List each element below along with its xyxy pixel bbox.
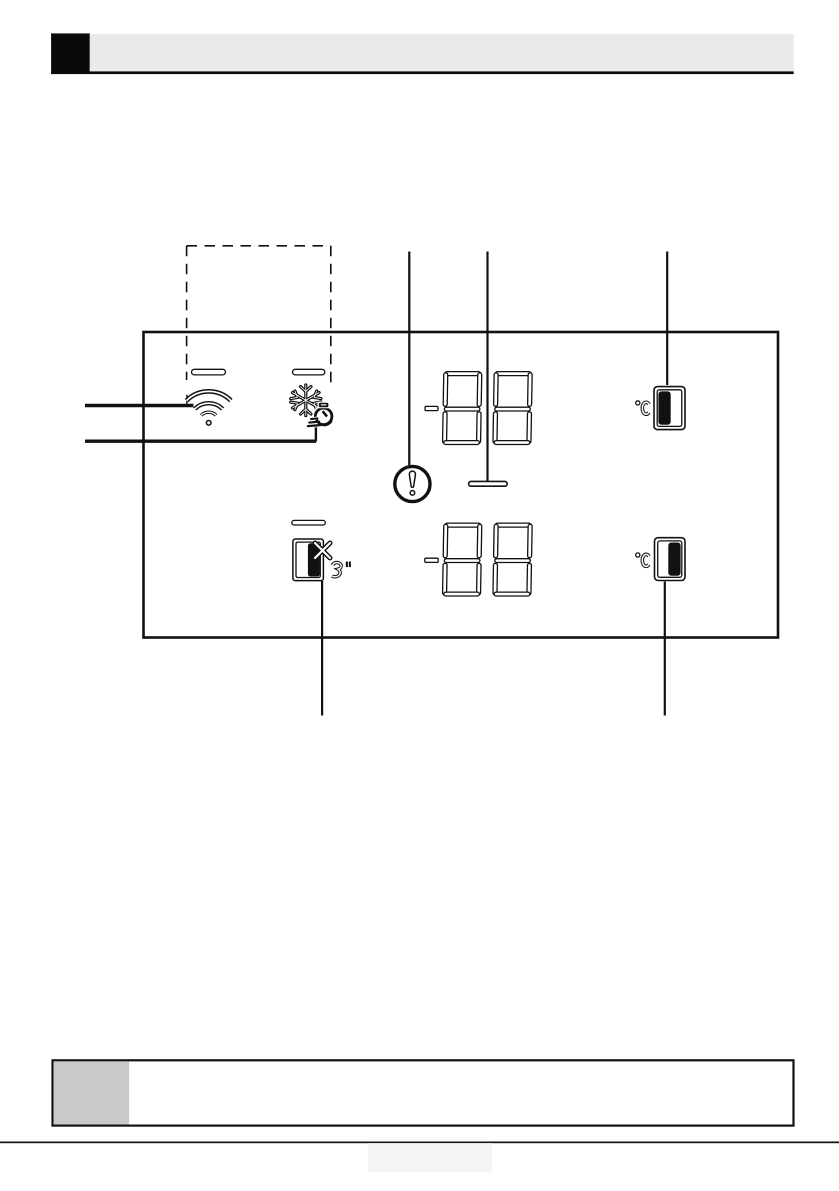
- lower display digit 2: [493, 523, 532, 596]
- callout line to quick-freeze indicator: [85, 440, 316, 443]
- selector bar above wifi: [192, 369, 226, 375]
- ice-off indicator: [293, 539, 351, 581]
- callout line from freezer temperature unit: [664, 582, 666, 716]
- dashed highlight box top edge: [187, 245, 331, 247]
- control panel border: [144, 332, 779, 638]
- minus sign upper display: [425, 406, 438, 410]
- quick freeze icon: snowflake: [291, 385, 321, 416]
- fridge temperature unit label: [636, 387, 685, 430]
- stopwatch ring lower arc over pile: [317, 420, 332, 425]
- lower display digit 1: [443, 523, 482, 596]
- quick freeze icon: stopwatch: [315, 402, 332, 425]
- upper display digit 1: [443, 372, 482, 445]
- wifi icon: [187, 391, 231, 425]
- selector bar above quick-freeze: [293, 369, 325, 375]
- dashed highlight box right edge: [330, 246, 332, 386]
- callout line to alarm indicator: [408, 252, 410, 466]
- callout line to fridge temperature unit: [666, 252, 668, 386]
- callout line to wifi indicator: [85, 404, 194, 407]
- upper display digit 2: [493, 372, 532, 445]
- setting bar under upper display: [469, 481, 508, 486]
- callout line from ice-off indicator: [321, 581, 323, 716]
- footer rule: [0, 1142, 839, 1144]
- ice-off indicator selector bar: [292, 520, 326, 525]
- dashed highlight box left edge: [186, 246, 188, 380]
- minus sign lower display: [425, 558, 438, 562]
- alarm indicator: circle with exclamation: [395, 466, 430, 501]
- freezer temperature unit label: [636, 538, 685, 581]
- notes box gray cell: [54, 1061, 130, 1124]
- notes box border: [53, 1060, 794, 1125]
- footer page-number plate: [368, 1143, 492, 1172]
- header black square: [51, 33, 90, 73]
- header gray title bar: [90, 34, 794, 72]
- callout line to setting bar indicator: [486, 252, 488, 483]
- quick freeze icon: snow pile: [306, 417, 323, 428]
- header underline: [51, 71, 794, 74]
